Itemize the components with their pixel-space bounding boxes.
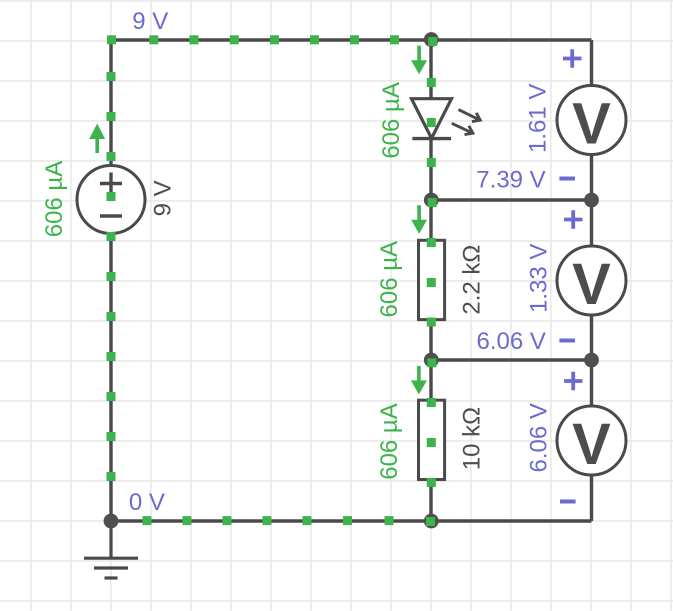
svg-text:1.33 V: 1.33 V xyxy=(525,244,552,313)
green dot over node A xyxy=(428,198,437,207)
wire R1 leads xyxy=(429,200,432,360)
M2 minus sign xyxy=(559,339,575,343)
node top (431,40) xyxy=(424,32,439,47)
green current dots: bottom rail xyxy=(143,516,394,525)
svg-text:606 µA: 606 µA xyxy=(41,161,68,238)
current arrow up on left rail xyxy=(89,124,105,154)
wire LED branch upper xyxy=(429,40,432,99)
resistor R2 10 kΩ xyxy=(419,400,445,479)
svg-text:7.39 V: 7.39 V xyxy=(476,166,545,193)
green dot over node B xyxy=(427,358,436,367)
voltmeter M2 xyxy=(557,246,626,317)
svg-text:606 µA: 606 µA xyxy=(378,82,405,159)
LED D1 xyxy=(412,99,452,139)
green current dots: R1 branch xyxy=(427,238,436,327)
node B right (591,360) xyxy=(584,353,599,368)
svg-text:V: V xyxy=(572,412,611,477)
current arrow down on R2 branch xyxy=(411,366,427,395)
wire node B row (6.06V) connector xyxy=(431,358,592,361)
node A right (591,200) xyxy=(584,193,599,208)
M2 plus sign xyxy=(564,210,583,229)
svg-text:6.06 V: 6.06 V xyxy=(477,328,546,355)
current arrow down on LED branch xyxy=(411,46,427,75)
svg-text:9 V: 9 V xyxy=(132,8,168,35)
node bottom-left ground junction xyxy=(104,514,119,529)
svg-text:2.2 kΩ: 2.2 kΩ xyxy=(458,245,485,315)
current arrow down on R1 branch xyxy=(411,205,427,234)
svg-text:0 V: 0 V xyxy=(129,489,165,516)
wire top rail from top-left corner to top-right corner xyxy=(111,38,592,41)
wire left rail above source xyxy=(109,40,112,167)
green current dots: left rail xyxy=(107,35,117,481)
svg-text:1.61 V: 1.61 V xyxy=(525,84,552,153)
green current dots: R2 branch xyxy=(427,398,436,487)
wire bottom rail xyxy=(111,519,592,522)
svg-text:6.06 V: 6.06 V xyxy=(526,403,553,472)
M1 plus sign xyxy=(563,49,582,68)
M3 minus sign xyxy=(560,500,576,504)
wire R2 leads xyxy=(429,360,432,521)
svg-text:606 µA: 606 µA xyxy=(376,403,403,480)
wire voltmeter column segments xyxy=(590,40,593,521)
green dot over top node xyxy=(428,37,437,46)
resistor R1 2.2 kΩ xyxy=(419,240,445,319)
node A left (431,200) xyxy=(424,193,439,208)
svg-text:606 µA: 606 µA xyxy=(376,241,403,318)
voltage source V1 (9 V battery) xyxy=(77,166,145,234)
node B left (431,360) xyxy=(424,353,439,368)
svg-text:V: V xyxy=(572,92,611,157)
green current dots: LED branch xyxy=(427,78,436,167)
M1 minus sign xyxy=(559,177,575,181)
voltmeter M3 xyxy=(557,406,626,477)
M3 plus sign xyxy=(564,372,583,391)
wire node A row (7.39V) connector xyxy=(431,198,592,201)
svg-text:9 V: 9 V xyxy=(149,180,176,216)
voltmeter M1 xyxy=(557,86,626,157)
ground xyxy=(84,521,138,578)
green current dots: top rail xyxy=(149,35,399,44)
LED emission arrow lower xyxy=(452,123,473,134)
svg-text:V: V xyxy=(572,252,611,317)
node bottom (431,520) xyxy=(424,514,439,529)
wire LED branch lower xyxy=(429,139,432,200)
LED emission arrow upper xyxy=(459,110,481,122)
wire left rail below source xyxy=(109,233,112,522)
svg-text:10 kΩ: 10 kΩ xyxy=(458,407,485,470)
green dot over bottom node xyxy=(426,517,435,526)
